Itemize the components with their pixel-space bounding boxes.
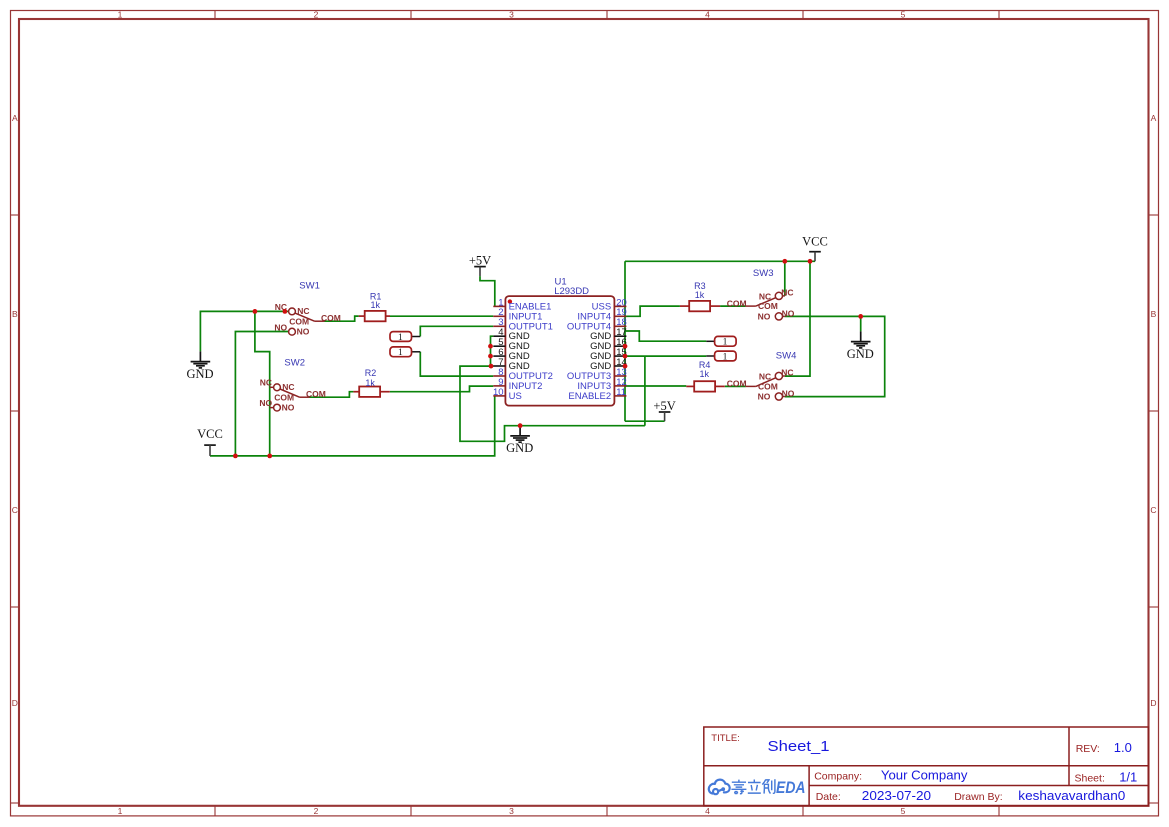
- title block lines: [704, 727, 1149, 806]
- svg-text:1: 1: [398, 333, 403, 343]
- net flag 1 (node 1 to pin15): [706, 351, 736, 362]
- svg-text:C: C: [1150, 505, 1156, 515]
- U1 pin 14 GND: [590, 357, 627, 372]
- svg-text:NO: NO: [282, 402, 295, 412]
- svg-text:ENABLE2: ENABLE2: [568, 391, 611, 402]
- logo text 嘉立创 (approximated strokes): [731, 779, 775, 794]
- svg-text:NC: NC: [781, 287, 793, 297]
- svg-text:B: B: [12, 309, 18, 319]
- svg-text:2023-07-20: 2023-07-20: [862, 788, 931, 803]
- svg-text:5: 5: [901, 10, 906, 20]
- svg-text:4: 4: [705, 10, 710, 20]
- svg-text:3: 3: [509, 10, 514, 20]
- wire VCC rail to SW3 NC: [784, 261, 786, 296]
- svg-text:NO: NO: [297, 327, 310, 337]
- U1 pin 11 ENABLE2: [568, 387, 626, 402]
- U1 pin 1 marker dot: [508, 299, 512, 303]
- svg-text:NO: NO: [758, 392, 771, 402]
- wire R2 to U1 pin 9 INPUT2: [390, 386, 494, 392]
- U1 pin 10 US: [493, 387, 522, 402]
- SW2 NC pin stub: [270, 386, 274, 388]
- wire VCC rail to U1 pin 10: [210, 396, 495, 456]
- svg-text:1k: 1k: [699, 369, 709, 379]
- wire junction: [858, 314, 863, 319]
- svg-text:NO: NO: [758, 311, 771, 321]
- wire SW1 NO down to VCC rail: [235, 332, 288, 456]
- svg-text:US: US: [509, 391, 522, 402]
- svg-text:COM: COM: [727, 378, 747, 388]
- svg-text:Your Company: Your Company: [881, 767, 968, 782]
- wire pin 17 GND to net flag 1c: [625, 331, 706, 341]
- resistor R2 1k: [353, 368, 389, 397]
- wire GND to SW1 NC: [200, 311, 288, 351]
- wire SW1 COM to R1: [325, 316, 359, 321]
- svg-text:COM: COM: [758, 381, 778, 391]
- svg-text:D: D: [1150, 698, 1156, 708]
- wire R1 to U1 pin 2 INPUT1: [390, 315, 493, 317]
- SW3 pin labels: [727, 287, 795, 321]
- svg-text:EDA: EDA: [776, 779, 806, 797]
- wire U1 pin 19 INPUT4 to R3: [625, 306, 680, 316]
- title block texts: [711, 733, 1105, 803]
- wire GND chain pins 4-7: [491, 336, 494, 366]
- svg-text:2: 2: [314, 806, 319, 816]
- svg-text:GND: GND: [186, 367, 213, 381]
- ground GND left: [191, 351, 211, 368]
- svg-text:B: B: [1151, 309, 1157, 319]
- U1 pin 15 GND: [590, 347, 627, 362]
- svg-text:COM: COM: [306, 389, 326, 399]
- svg-text:+5V: +5V: [653, 399, 675, 413]
- svg-text:NO: NO: [782, 389, 795, 399]
- svg-text:VCC: VCC: [802, 234, 828, 248]
- resistor R3 1k: [680, 281, 720, 311]
- wire net flag 1b to U1 pin 8 OUTPUT2: [420, 352, 493, 376]
- svg-text:COM: COM: [727, 298, 747, 308]
- svg-text:NC: NC: [759, 291, 771, 301]
- U1 pin 20 USS: [592, 297, 627, 312]
- power VCC top right: [809, 252, 821, 262]
- wire junction: [283, 309, 288, 314]
- U1 pin 9 INPUT2: [493, 377, 542, 392]
- svg-text:COM: COM: [321, 313, 341, 323]
- U1 pin 6 GND: [493, 347, 530, 362]
- wire VCC rail to SW4 NC: [785, 261, 810, 376]
- svg-text:COM: COM: [758, 301, 778, 311]
- U1 pin 18 OUTPUT4: [567, 317, 627, 332]
- svg-text:A: A: [1151, 113, 1157, 123]
- SW2 pin labels: [259, 378, 325, 413]
- wire junction: [623, 354, 628, 359]
- wire stub to right GND: [860, 316, 862, 331]
- switch SW1 SPDT: [289, 308, 325, 335]
- svg-text:NC: NC: [297, 306, 309, 316]
- U1 pin 13 OUTPUT3: [567, 367, 627, 382]
- U1 pin 1 ENABLE1: [493, 297, 551, 312]
- op-amp/driver U1 L293DD body: [505, 296, 614, 406]
- svg-text:C: C: [12, 505, 18, 515]
- wire R3 to SW3 COM: [720, 305, 746, 307]
- wire junction: [267, 454, 272, 459]
- svg-text:1: 1: [398, 348, 403, 358]
- svg-text:COM: COM: [289, 317, 309, 327]
- net flag 1 (node 1 to pin17): [706, 336, 736, 347]
- svg-text:NO: NO: [782, 308, 795, 318]
- svg-text:5: 5: [901, 806, 906, 816]
- switch SW2 SPDT: [274, 384, 310, 411]
- net flag 1 (node 1 to OUTPUT2): [390, 347, 420, 358]
- ground GND below U1: [510, 426, 530, 443]
- U1 pin 7 GND: [493, 357, 530, 372]
- U1 pin 2 INPUT1: [493, 307, 542, 322]
- svg-text:Sheet:: Sheet:: [1075, 772, 1105, 784]
- svg-text:L293DD: L293DD: [554, 286, 589, 297]
- EDA logo cloud: [709, 780, 730, 795]
- svg-text:REV:: REV:: [1076, 743, 1100, 755]
- svg-text:R2: R2: [365, 368, 377, 378]
- wire GND run up to pin15 net: [644, 356, 646, 426]
- wire SW2 COM to R2: [310, 392, 354, 398]
- wire net flag 1a to U1 pin 3 OUTPUT1: [420, 326, 493, 336]
- svg-text:SW1: SW1: [299, 280, 320, 291]
- svg-text:1k: 1k: [370, 300, 380, 310]
- svg-text:Drawn By:: Drawn By:: [954, 791, 1002, 803]
- resistor R1 1k: [359, 291, 390, 321]
- wire junction: [488, 354, 493, 359]
- wire GND bus right of U1: [624, 261, 626, 421]
- svg-text:1: 1: [723, 338, 728, 348]
- svg-text:A: A: [12, 113, 18, 123]
- wire junction: [233, 454, 238, 459]
- U1 pin 17 GND: [590, 327, 627, 342]
- U1 pin 8 OUTPUT2: [493, 367, 553, 382]
- svg-text:1.0: 1.0: [1114, 740, 1132, 755]
- U1 pin 4 GND: [493, 327, 530, 342]
- resistor R4 1k: [686, 360, 725, 391]
- svg-text:TITLE:: TITLE:: [711, 733, 740, 744]
- svg-text:COM: COM: [274, 393, 294, 403]
- wire pin 15 GND to net flag 1d: [625, 355, 706, 357]
- SW1 pin labels: [274, 302, 340, 337]
- svg-text:GND: GND: [506, 441, 533, 455]
- svg-text:D: D: [12, 698, 18, 708]
- U1 pin 19 INPUT4: [577, 307, 626, 322]
- wire +5V right to U1 pin 11: [625, 420, 665, 422]
- svg-text:NC: NC: [282, 382, 294, 392]
- wire R4 to SW4 COM: [725, 385, 746, 387]
- svg-text:GND: GND: [847, 347, 874, 361]
- wire junction: [518, 423, 523, 428]
- svg-text:1: 1: [118, 10, 123, 20]
- svg-text:keshavavardhan0: keshavavardhan0: [1018, 788, 1125, 803]
- power +5V top: [474, 267, 486, 277]
- U1 pin 12 INPUT3: [577, 377, 626, 392]
- svg-text:VCC: VCC: [197, 427, 223, 441]
- wire pin7 GND run below U1: [460, 366, 645, 441]
- U1 pin 5 GND: [493, 337, 530, 352]
- svg-text:SW2: SW2: [284, 357, 305, 368]
- switch SW4 SPDT: [746, 372, 785, 400]
- svg-text:NO: NO: [274, 322, 287, 332]
- svg-text:Sheet_1: Sheet_1: [768, 739, 830, 755]
- net flag 1 (node 1 to OUTPUT1): [390, 332, 420, 343]
- svg-text:SW3: SW3: [753, 268, 774, 279]
- wire junction: [623, 344, 628, 349]
- wire SW1-NC node down to SW2/VCC rail: [255, 311, 270, 456]
- ground GND right: [851, 331, 871, 348]
- wire junction: [782, 259, 787, 264]
- svg-text:NC: NC: [260, 378, 272, 388]
- wire junction: [623, 364, 628, 369]
- power VCC left: [204, 445, 216, 456]
- wire junction: [253, 309, 258, 314]
- wire junction: [808, 259, 813, 264]
- SW2 NO pin stub: [270, 407, 274, 409]
- svg-text:+5V: +5V: [469, 254, 491, 268]
- svg-text:1k: 1k: [365, 378, 375, 388]
- svg-text:1: 1: [723, 352, 728, 362]
- power +5V right: [659, 412, 671, 421]
- svg-text:NO: NO: [259, 398, 272, 408]
- svg-text:10: 10: [493, 387, 504, 398]
- svg-text:1: 1: [118, 806, 123, 816]
- svg-text:1/1: 1/1: [1119, 769, 1137, 784]
- U1 pin 3 OUTPUT1: [493, 317, 553, 332]
- wire +5V to U1 pin 1 ENABLE1: [480, 276, 495, 306]
- svg-text:2: 2: [314, 10, 319, 20]
- svg-text:4: 4: [705, 806, 710, 816]
- wire junction: [489, 364, 494, 369]
- SW4 pin labels: [727, 368, 795, 402]
- wire U1 pin 12 INPUT3 to R4: [625, 385, 686, 387]
- switch SW3 SPDT: [746, 292, 785, 320]
- wire VCC top rail: [625, 260, 815, 262]
- svg-text:11: 11: [616, 387, 626, 398]
- svg-text:NC: NC: [781, 368, 793, 378]
- svg-text:NC: NC: [759, 372, 771, 382]
- wire SW3 NO / SW4 NO to GND: [785, 316, 885, 396]
- svg-text:SW4: SW4: [776, 351, 797, 362]
- svg-text:Date:: Date:: [816, 791, 841, 803]
- U1 pin 16 GND: [590, 337, 627, 352]
- svg-text:1k: 1k: [695, 290, 705, 300]
- wire junction: [488, 344, 493, 349]
- svg-text:Company:: Company:: [814, 770, 862, 782]
- svg-text:3: 3: [509, 806, 514, 816]
